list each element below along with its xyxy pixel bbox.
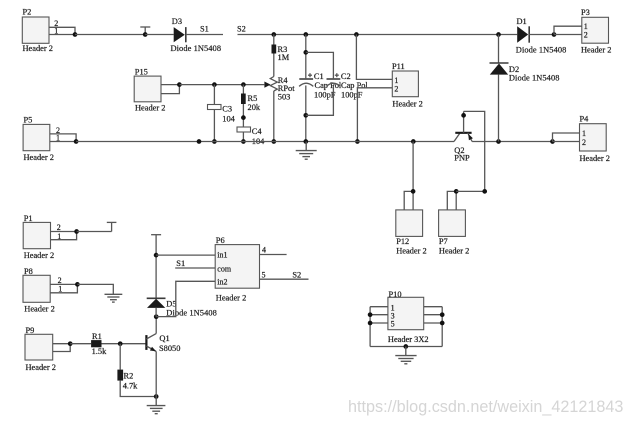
- svg-text:Q1: Q1: [159, 334, 169, 343]
- junction at P15 pins: [177, 82, 182, 87]
- svg-text:com: com: [217, 264, 232, 273]
- svg-text:4: 4: [262, 246, 266, 255]
- wire P1 pin2 stub: [51, 231, 77, 233]
- ground symbol Q1: [147, 397, 166, 414]
- ground symbol P10: [395, 347, 416, 364]
- junction left pin3: [368, 312, 373, 317]
- wire R5 top lead: [242, 85, 244, 94]
- svg-text:2: 2: [582, 138, 586, 147]
- wire P1 to power bar: [77, 231, 112, 233]
- svg-text:S2: S2: [292, 271, 301, 280]
- wire P6 pin4: [260, 254, 287, 256]
- junction C3 bottom: [212, 139, 217, 144]
- wire P6 pin5: [260, 278, 309, 280]
- wire D1 cathode to P3: [529, 34, 554, 36]
- svg-text:503: 503: [278, 93, 291, 102]
- wire P4 pin1 stub: [553, 133, 580, 142]
- wire P15 upper pin stub: [161, 84, 179, 86]
- wire P9 lower pin stub: [53, 344, 70, 352]
- wire D5 to collector node: [155, 308, 157, 317]
- power bar port D5: [151, 234, 161, 236]
- wire P11 pin1 stub: [356, 35, 392, 80]
- connector P2: [22, 8, 58, 54]
- svg-text:R2: R2: [124, 371, 134, 380]
- transistor Q2: [454, 111, 473, 162]
- connector P3: [581, 8, 611, 55]
- junction at base net corner: [482, 189, 487, 194]
- junction D5 bottom node: [154, 314, 159, 319]
- svg-text:C3: C3: [222, 104, 232, 113]
- svg-text:Diode 1N5408: Diode 1N5408: [516, 46, 567, 55]
- wire P7 right pin stub: [455, 191, 457, 210]
- wire C4 bottom lead: [242, 132, 244, 142]
- junction at P7 pins: [454, 189, 459, 194]
- junction P11 pin1: [354, 32, 359, 37]
- resistor R5: [241, 94, 261, 113]
- junction on Q2 base wire: [461, 113, 466, 118]
- connector P6: [215, 236, 259, 302]
- svg-text:P10: P10: [389, 290, 402, 299]
- junction C1-C2 bottom join: [303, 113, 308, 118]
- wire Q1 emitter down: [155, 351, 157, 396]
- svg-text:Header 2: Header 2: [581, 46, 611, 55]
- power bar port: [140, 27, 150, 35]
- connector P1: [23, 214, 61, 260]
- connector P8: [23, 267, 62, 314]
- svg-text:1.5k: 1.5k: [92, 347, 107, 356]
- svg-text:https://blog.csdn.net/weixin_4: https://blog.csdn.net/weixin_42121843: [348, 398, 623, 416]
- junction at P4 pins: [550, 139, 555, 144]
- junction ground symbol tap: [303, 139, 308, 144]
- junction at P8 pins: [75, 282, 80, 287]
- wire P10 left pin 5: [370, 322, 388, 324]
- svg-text:D1: D1: [517, 17, 527, 26]
- svg-text:P8: P8: [24, 267, 33, 276]
- wire P10 right bus: [441, 307, 443, 347]
- svg-text:C4: C4: [252, 127, 263, 136]
- diode D3: [171, 17, 222, 53]
- junction P12 tap on rail: [411, 139, 416, 144]
- svg-text:Header 2: Header 2: [26, 363, 56, 372]
- svg-text:S1: S1: [200, 25, 209, 34]
- svg-text:P3: P3: [581, 8, 590, 17]
- wire P10 bottom bus: [370, 346, 442, 348]
- wire R1 to base node: [102, 343, 147, 345]
- junction at P2 pins: [73, 32, 78, 37]
- connector P5: [23, 115, 60, 161]
- wire P15 to R4 wiper: [179, 84, 264, 86]
- wire P8 pin2 stub: [50, 283, 77, 285]
- resistor R2: [117, 370, 138, 391]
- resistor R1: [91, 332, 107, 356]
- svg-text:Header 2: Header 2: [24, 153, 54, 162]
- wire P10 right pin 6: [424, 322, 443, 324]
- svg-text:5: 5: [262, 270, 266, 279]
- ground symbol P8: [105, 294, 123, 302]
- svg-text:Header 3X2: Header 3X2: [388, 335, 429, 344]
- junction D2 top: [496, 32, 501, 37]
- junction D2 bottom: [496, 139, 501, 144]
- wire C2 bottom lead: [306, 86, 334, 116]
- wire P10 right pin 4: [424, 314, 443, 316]
- wire ground rail right: [472, 141, 552, 143]
- wire P3 pin1 stub: [554, 26, 582, 34]
- wire P4 pin2 stub: [553, 141, 580, 143]
- svg-text:4.7k: 4.7k: [123, 381, 138, 390]
- svg-text:Header 2: Header 2: [24, 304, 54, 313]
- potentiometer R4: [264, 76, 295, 101]
- junction P10 ground tap: [403, 344, 408, 349]
- wire P7 to Q2 base net: [456, 190, 485, 192]
- capacitor C1: [299, 72, 342, 100]
- svg-text:5: 5: [391, 319, 395, 328]
- svg-text:Header 2: Header 2: [135, 104, 165, 113]
- wire P10 left bus: [369, 307, 371, 347]
- svg-text:R1: R1: [92, 332, 102, 341]
- svg-text:S8050: S8050: [159, 344, 180, 353]
- junction R1-R2: [118, 341, 123, 346]
- svg-text:P6: P6: [216, 236, 225, 245]
- wire P1 pin1 stub: [51, 232, 77, 240]
- svg-text:Header 2: Header 2: [24, 251, 54, 260]
- connector P9: [25, 326, 56, 372]
- wire P9 upper pin stub: [53, 343, 70, 345]
- junction R3 top: [271, 32, 276, 37]
- connector P4: [580, 114, 610, 163]
- diode D5: [147, 298, 217, 317]
- svg-text:C2: C2: [341, 72, 351, 81]
- junction in1 tap: [154, 253, 159, 258]
- wire D2 top lead: [498, 35, 500, 64]
- wire P7 left pin stub: [447, 191, 456, 210]
- junction emitter-ground: [154, 394, 159, 399]
- svg-text:P5: P5: [24, 115, 33, 124]
- wire R4 bottom lead: [273, 91, 275, 142]
- svg-text:P1: P1: [24, 214, 33, 223]
- wire ground rail left: [76, 141, 454, 143]
- transistor Q1: [146, 334, 180, 353]
- svg-text:S2: S2: [237, 25, 246, 34]
- wire Q1 collector up: [155, 317, 157, 334]
- wire P10 right pin 2: [424, 306, 443, 308]
- wire in2: [156, 281, 215, 316]
- wire P5 pin2 stub: [50, 134, 76, 142]
- svg-text:S1: S1: [176, 259, 185, 268]
- wire P12 right pin stub to rail: [412, 142, 414, 210]
- capacitor C2: [326, 72, 368, 100]
- svg-text:P9: P9: [26, 326, 35, 335]
- junction C1 top: [303, 32, 308, 37]
- wire com: [175, 267, 215, 269]
- wire P10 left pin 3: [370, 314, 388, 316]
- svg-text:Diode 1N5408: Diode 1N5408: [171, 44, 222, 53]
- svg-text:20k: 20k: [248, 103, 261, 112]
- junction stray on rail: [197, 139, 202, 144]
- junction P11 pin2 at rail: [355, 139, 360, 144]
- connector P11: [392, 62, 423, 108]
- svg-text:C1: C1: [314, 72, 324, 81]
- junction at power bar: [143, 32, 148, 37]
- svg-text:Header 2: Header 2: [216, 294, 246, 303]
- svg-text:2: 2: [584, 31, 588, 40]
- resistor R3: [272, 45, 290, 63]
- junction at P5 pins: [74, 139, 79, 144]
- junction at P12 pins: [411, 189, 416, 194]
- wire D2 bottom lead: [498, 75, 500, 142]
- wire C3 top lead: [213, 85, 215, 105]
- svg-text:in1: in1: [217, 251, 227, 260]
- junction R5-C4: [241, 115, 246, 120]
- svg-text:1: 1: [582, 129, 586, 138]
- connector P12: [396, 210, 427, 256]
- wire S2 bus: [238, 34, 518, 36]
- wire C3 bottom lead: [213, 110, 215, 142]
- svg-text:P2: P2: [23, 8, 32, 17]
- wire Q2 base over to P7 net: [464, 111, 485, 191]
- wire P8 to ground: [77, 284, 113, 294]
- wire P12 left pin stub: [404, 191, 413, 210]
- svg-text:Diode 1N5408: Diode 1N5408: [509, 73, 560, 82]
- diode D1: [516, 17, 567, 54]
- connector P7: [439, 210, 470, 256]
- wire in1: [156, 254, 215, 256]
- capacitor C3: [208, 104, 236, 123]
- svg-text:1M: 1M: [278, 53, 290, 62]
- junction C4 bottom: [241, 139, 246, 144]
- junction R5 top: [241, 82, 246, 87]
- svg-text:D3: D3: [172, 17, 182, 26]
- svg-text:2: 2: [394, 84, 398, 93]
- svg-text:P11: P11: [392, 62, 405, 71]
- svg-text:100pF: 100pF: [341, 90, 363, 99]
- svg-text:Header 2: Header 2: [396, 246, 426, 255]
- junction at P9 pins: [68, 341, 73, 346]
- wire C1 upper lead: [305, 35, 307, 80]
- svg-text:Header 2: Header 2: [439, 246, 469, 255]
- svg-text:Header 2: Header 2: [580, 154, 610, 163]
- svg-text:104: 104: [222, 114, 235, 123]
- wire P11 pin2 to ground rail: [357, 88, 392, 142]
- wire R3 to R4: [273, 54, 275, 77]
- wire to C2 top: [306, 52, 334, 79]
- svg-text:100pF: 100pF: [314, 90, 336, 99]
- wire to D3 anode: [145, 34, 174, 36]
- wire C1 bottom lead: [305, 86, 307, 142]
- svg-text:R5: R5: [248, 94, 258, 103]
- wire P9 to R1: [70, 343, 91, 345]
- svg-text:P12: P12: [396, 237, 409, 246]
- svg-text:in2: in2: [217, 277, 227, 286]
- junction at P3 pins: [552, 32, 557, 37]
- wire P2 pin2 stub: [49, 27, 75, 34]
- power bar port P1: [107, 222, 117, 231]
- svg-text:P15: P15: [135, 68, 148, 77]
- junction right pin4: [440, 312, 445, 317]
- junction C1-C2 top split: [303, 50, 308, 55]
- connector P15: [134, 68, 165, 113]
- capacitor C4: [237, 127, 265, 146]
- svg-text:Header 2: Header 2: [23, 44, 53, 53]
- wire P10 left pin 1: [370, 306, 388, 308]
- junction R4 bottom: [271, 139, 276, 144]
- wire R2 top lead: [119, 344, 121, 370]
- wire P3 pin2 stub: [554, 34, 582, 36]
- wire D5 top lead: [155, 235, 157, 299]
- wire R2 bottom to emitter node: [120, 381, 156, 397]
- svg-text:Header 2: Header 2: [392, 100, 422, 109]
- junction C3 top: [212, 82, 217, 87]
- wire D3 cathode to S1 end: [186, 34, 223, 36]
- connector P10: [388, 290, 429, 344]
- wire P8 pin1 stub: [50, 284, 77, 292]
- wire R5 to C4: [242, 104, 244, 127]
- ground symbol at rail: [296, 142, 317, 160]
- svg-text:D5: D5: [166, 300, 176, 309]
- junction right pin6: [440, 321, 445, 326]
- junction left pin5: [368, 321, 373, 326]
- wire P2 pin1 stub: [49, 34, 75, 36]
- diode D2: [490, 63, 560, 82]
- wire R3 top lead: [273, 35, 275, 45]
- svg-text:P7: P7: [439, 237, 448, 246]
- svg-text:P4: P4: [580, 114, 590, 123]
- wire P2 to power bar: [75, 34, 145, 36]
- wire P15 lower pin stub: [161, 85, 179, 94]
- svg-text:PNP: PNP: [454, 153, 470, 162]
- junction at P1 pins: [74, 229, 79, 234]
- wire P5 pin1 stub: [50, 141, 76, 143]
